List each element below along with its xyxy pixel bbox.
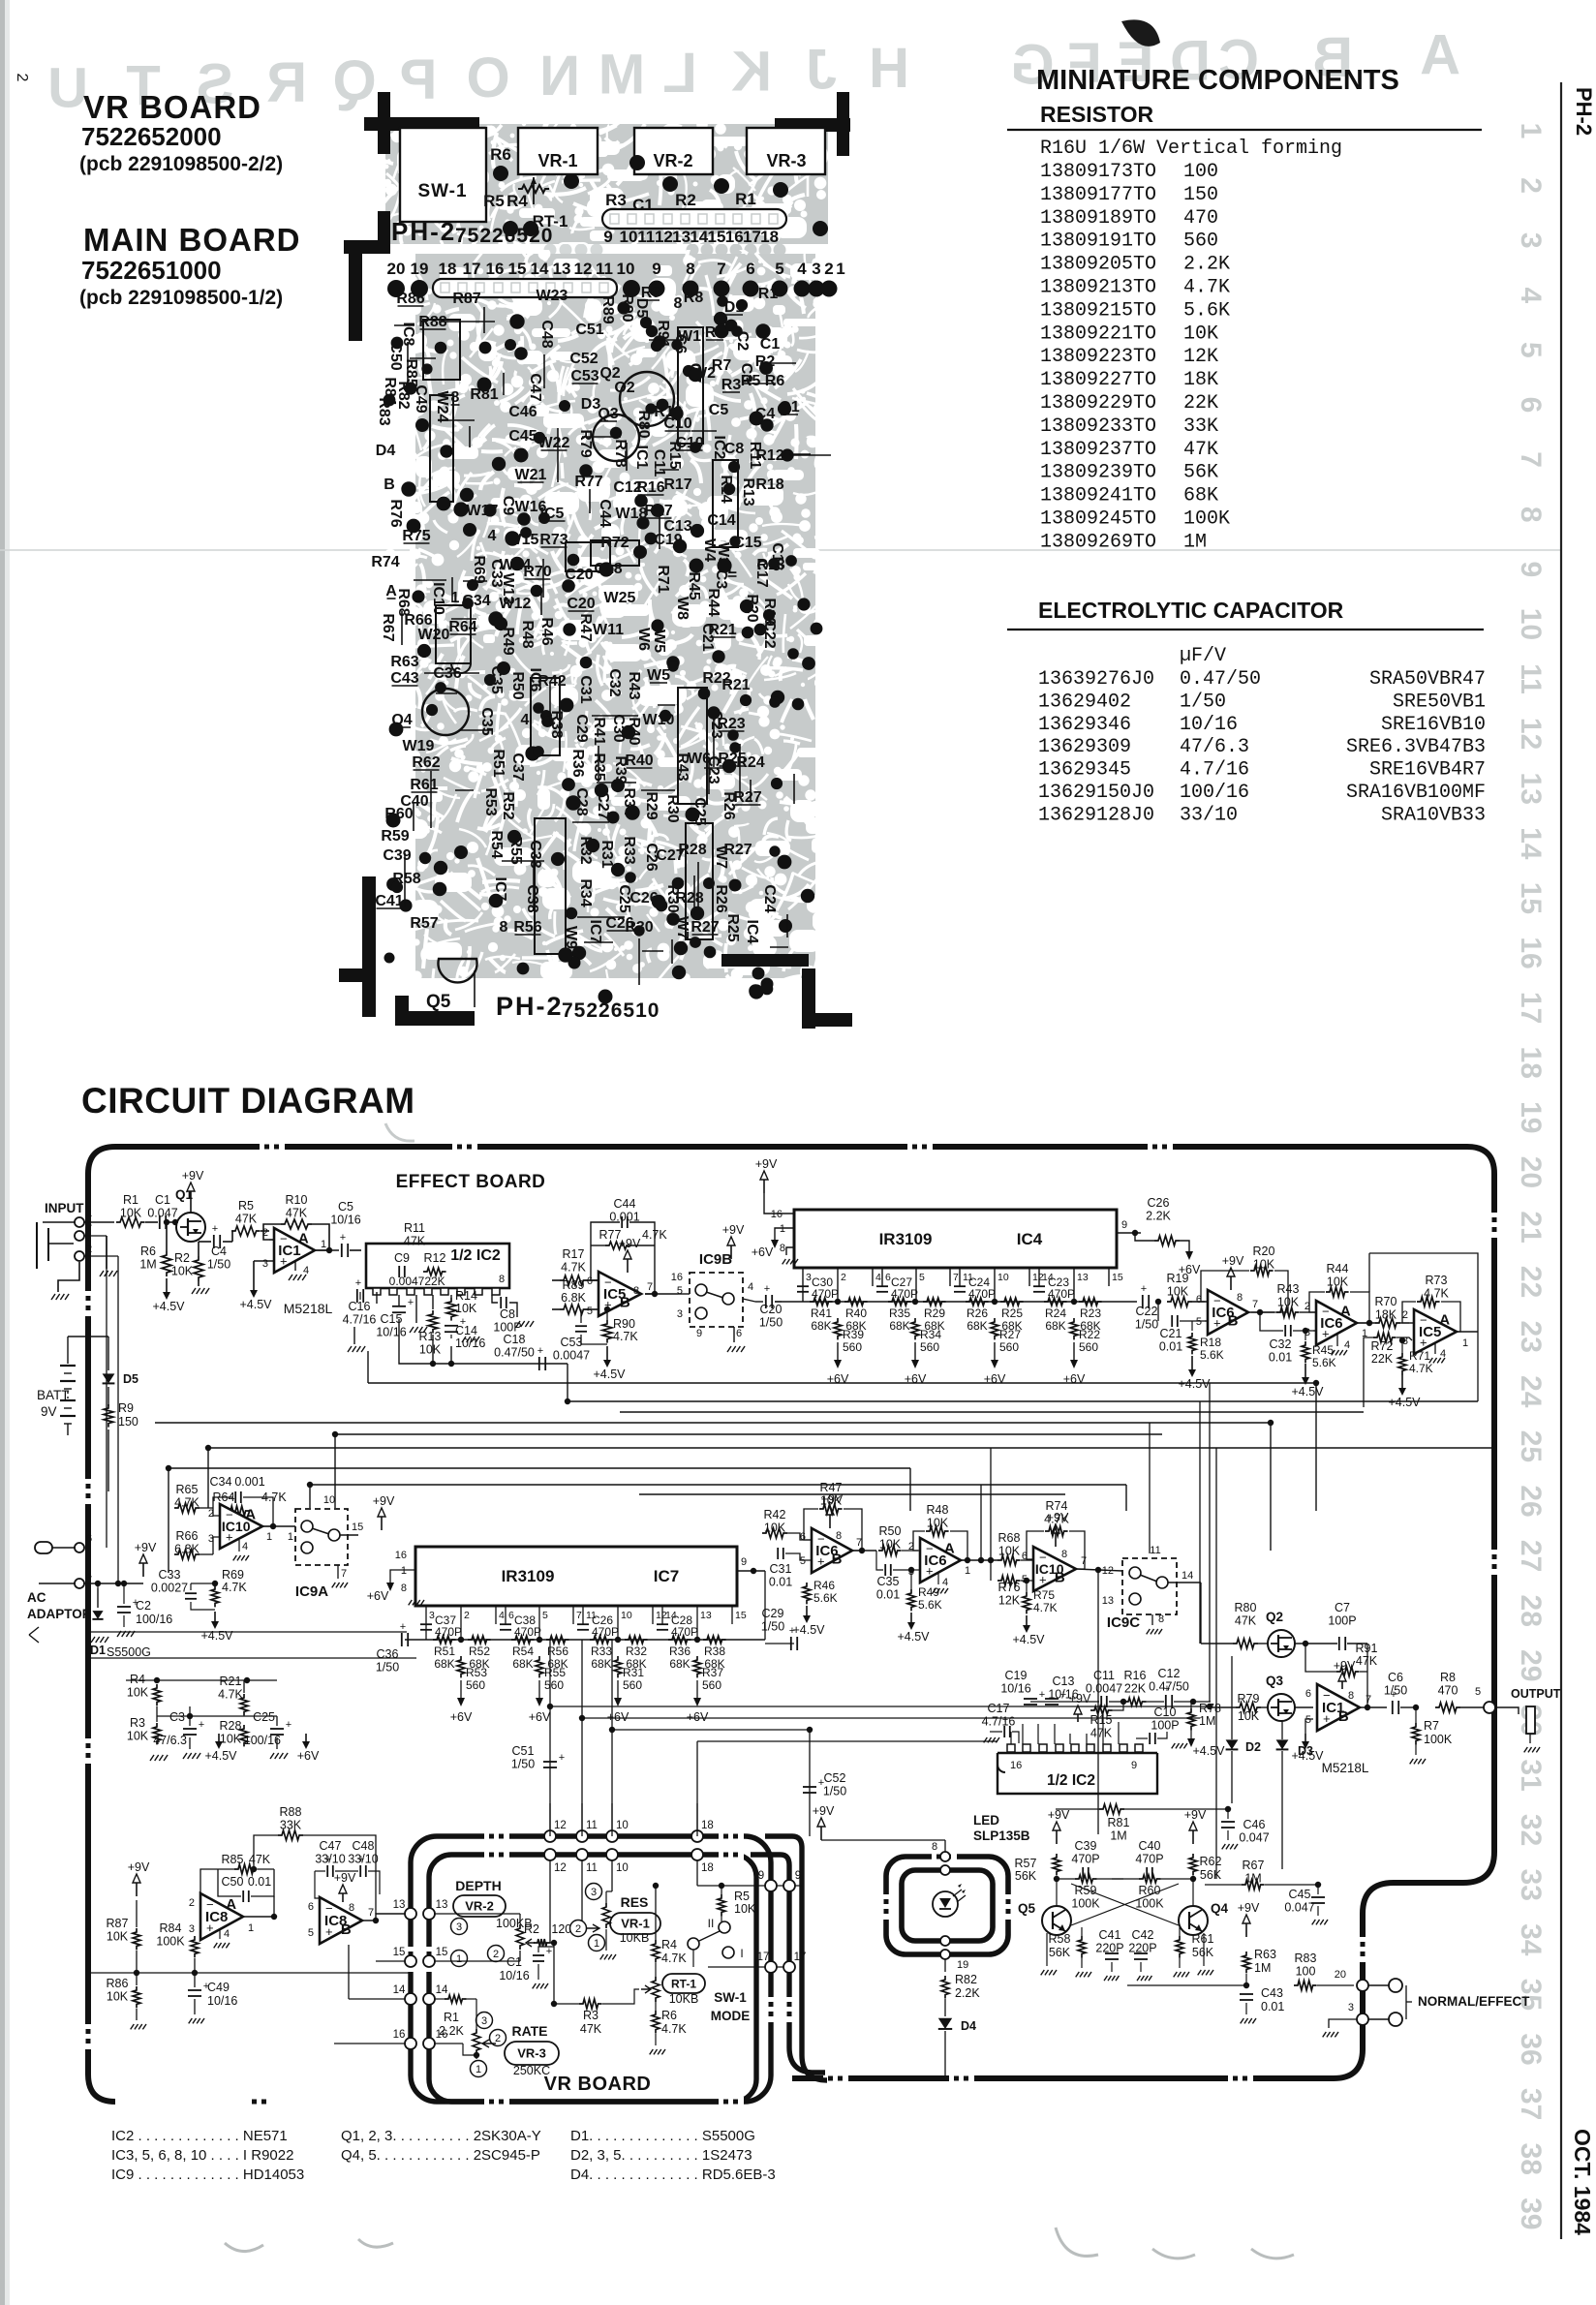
svg-text:11: 11 (586, 1820, 598, 1831)
svg-text:+: + (764, 1283, 770, 1295)
svg-text:C46: C46 (508, 404, 537, 420)
svg-text:R44: R44 (1327, 1262, 1349, 1275)
svg-text:1: 1 (321, 1239, 326, 1250)
op-amp IC10 B (1033, 1547, 1076, 1591)
svg-text:22K: 22K (424, 1275, 445, 1288)
svg-text:R19: R19 (1167, 1272, 1189, 1285)
svg-text:16: 16 (395, 1550, 407, 1561)
svg-text:38: 38 (1515, 2143, 1547, 2175)
pot box VR-1 (518, 128, 598, 174)
resistor R24 (1044, 1298, 1067, 1306)
svg-text:560: 560 (466, 1678, 485, 1692)
svg-text:9: 9 (741, 1556, 747, 1568)
svg-text:M5218L: M5218L (1322, 1761, 1369, 1775)
svg-text:4: 4 (1344, 1339, 1350, 1351)
svg-text:IC9 . . . . . . . . . . . . .: IC9 . . . . . . . . . . . . . HD14053 (111, 2167, 304, 2183)
svg-text:100P: 100P (1328, 1614, 1356, 1628)
wire to R83 (1245, 1974, 1247, 1985)
svg-text:47K: 47K (1235, 1614, 1257, 1628)
svg-text:IC7: IC7 (654, 1567, 679, 1585)
svg-text:D4. . . . . . . . . . . . . .: D4. . . . . . . . . . . . . . RD5.6EB-3 (570, 2167, 776, 2183)
svg-text:PH-2: PH-2 (1572, 87, 1596, 136)
svg-text:C6: C6 (1388, 1671, 1403, 1684)
svg-text:15: 15 (708, 228, 726, 246)
svg-text:10K: 10K (1183, 323, 1218, 345)
wires above IC2 pins (1022, 1724, 1024, 1744)
svg-text:1/50: 1/50 (1135, 1318, 1158, 1332)
svg-text:12K: 12K (998, 1594, 1021, 1608)
svg-text:+6V: +6V (905, 1372, 927, 1386)
effect board border (88, 1147, 1494, 2102)
svg-text:+4.5V: +4.5V (1178, 1377, 1211, 1391)
svg-text:+9V: +9V (1069, 1692, 1091, 1706)
svg-text:4.7K: 4.7K (561, 1261, 586, 1275)
svg-text:2: 2 (575, 1923, 581, 1935)
svg-text:C11: C11 (1093, 1669, 1115, 1682)
svg-text:+4.5V: +4.5V (239, 1298, 272, 1311)
svg-text:10KB: 10KB (620, 1931, 650, 1945)
svg-text:10K: 10K (107, 1990, 129, 2004)
svg-text:C42: C42 (1132, 1928, 1154, 1942)
pot RES VR-1 (586, 1884, 602, 1900)
svg-text:C41: C41 (1099, 1928, 1121, 1942)
LED pin 19 (940, 1936, 950, 1946)
svg-text:R50: R50 (879, 1524, 902, 1538)
svg-text:K: K (731, 40, 772, 103)
svg-text:R84: R84 (160, 1921, 182, 1935)
capacitor C22 (1142, 1295, 1144, 1308)
svg-text:31: 31 (1515, 1759, 1547, 1791)
cross coupling wires (1071, 1889, 1160, 1921)
resistor R55 (536, 1656, 543, 1677)
svg-text:D4: D4 (376, 443, 396, 459)
svg-text:R26: R26 (713, 884, 729, 912)
svg-text:W19: W19 (403, 738, 435, 754)
svg-text:7: 7 (953, 1272, 959, 1283)
svg-text:+6V: +6V (607, 1710, 629, 1724)
svg-text:15: 15 (1515, 882, 1547, 914)
svg-text:+9V: +9V (722, 1223, 745, 1237)
IC6A mid out (961, 1559, 997, 1561)
svg-text:IC9B: IC9B (699, 1251, 732, 1268)
resistor R36 (668, 1636, 691, 1644)
VR board pin header (602, 209, 786, 229)
svg-text:R49: R49 (500, 627, 516, 655)
svg-text:8: 8 (1158, 1613, 1164, 1625)
IC box 1/2 IC2 bottom (1007, 1744, 1015, 1752)
+9V AC rail (84, 1583, 143, 1584)
svg-text:C52: C52 (824, 1771, 846, 1785)
svg-text:16: 16 (1010, 1760, 1022, 1771)
resistor R22 (1070, 1318, 1078, 1339)
svg-text:OCT. 1984: OCT. 1984 (1570, 2129, 1595, 2235)
svg-text:4.7K: 4.7K (1044, 1513, 1069, 1526)
svg-text:INPUT: INPUT (45, 1201, 84, 1215)
svg-text:R12: R12 (755, 447, 783, 464)
svg-text:1M: 1M (1199, 1714, 1215, 1728)
svg-text:VR BOARD: VR BOARD (544, 2074, 652, 2095)
svg-text:+4.5V: +4.5V (593, 1368, 626, 1381)
svg-text:W5: W5 (647, 667, 670, 684)
svg-text:+: + (340, 1232, 346, 1244)
svg-text:SRA10VB33: SRA10VB33 (1381, 804, 1486, 826)
svg-text:R61: R61 (1192, 1932, 1214, 1946)
svg-text:3: 3 (1348, 2002, 1354, 2013)
wires to VR pins (376, 1960, 411, 1962)
svg-text:10/16: 10/16 (1000, 1682, 1030, 1696)
svg-text:13: 13 (1102, 1595, 1114, 1607)
capacitor C30 (797, 1285, 809, 1287)
spare pads row (687, 244, 699, 257)
registration mark top-right (837, 92, 849, 156)
svg-text:100: 100 (1296, 1965, 1316, 1979)
svg-text:19: 19 (411, 260, 429, 278)
svg-text:14: 14 (1515, 827, 1547, 860)
wire IC6B out (1248, 1311, 1274, 1313)
resistor R27 (991, 1318, 998, 1339)
svg-text:8: 8 (349, 1902, 354, 1914)
svg-text:75226510: 75226510 (562, 999, 660, 1022)
svg-text:15: 15 (508, 260, 527, 278)
svg-text:8: 8 (1348, 1690, 1354, 1702)
svg-text:R6: R6 (661, 2009, 677, 2022)
svg-text:15: 15 (1112, 1272, 1123, 1283)
svg-text:R36: R36 (669, 1644, 691, 1658)
Q4 emitter gnd (1203, 1933, 1205, 1966)
svg-text:R12: R12 (424, 1251, 446, 1265)
svg-text:IC4: IC4 (1017, 1230, 1043, 1248)
resistor R35 (888, 1298, 911, 1306)
svg-text:R72: R72 (1371, 1339, 1394, 1353)
resistor R71 (1398, 1353, 1406, 1374)
svg-text:2.2K: 2.2K (955, 1986, 980, 2000)
capacitor C28 (657, 1623, 668, 1625)
svg-text:10KB: 10KB (669, 1992, 699, 2006)
fold line (0, 549, 1561, 551)
svg-text:14: 14 (393, 1984, 406, 1996)
+4.5V under R18 (1191, 1356, 1193, 1369)
svg-text:R18: R18 (1200, 1336, 1221, 1349)
svg-text:16: 16 (771, 1209, 783, 1220)
+9V at IC8B (342, 1893, 344, 1902)
svg-text:68K: 68K (591, 1657, 611, 1671)
svg-text:R79: R79 (577, 429, 594, 457)
svg-text:+: + (358, 1854, 364, 1865)
svg-text:C47: C47 (527, 373, 543, 401)
svg-text:C44: C44 (597, 499, 613, 527)
svg-text:+: + (1002, 1714, 1008, 1726)
svg-text:IC9C: IC9C (1107, 1614, 1140, 1631)
+4.5V under R69 (214, 1612, 216, 1621)
scan edge shading (0, 0, 5, 2305)
AC input node (29, 1627, 39, 1643)
svg-text:13629345: 13629345 (1038, 759, 1131, 782)
svg-text:SRE16VB4R7: SRE16VB4R7 (1369, 759, 1486, 782)
svg-text:12: 12 (655, 228, 673, 246)
svg-text:+9V: +9V (1184, 1808, 1207, 1822)
svg-text:7: 7 (1515, 451, 1547, 468)
svg-text:R51: R51 (490, 749, 506, 777)
svg-text:3: 3 (456, 1921, 462, 1933)
svg-text:18: 18 (701, 1820, 714, 1831)
svg-text:68K: 68K (1183, 485, 1218, 507)
+4.5V under R90 (606, 1346, 608, 1360)
svg-text:R56: R56 (513, 919, 541, 936)
svg-text:R74: R74 (1046, 1499, 1068, 1513)
svg-text:R71: R71 (655, 565, 671, 593)
svg-text:56K: 56K (1015, 1869, 1037, 1883)
svg-text:R47: R47 (577, 613, 594, 641)
svg-text:13809229TO: 13809229TO (1040, 392, 1156, 415)
svg-text:P: P (400, 48, 438, 111)
svg-text:47K: 47K (286, 1207, 308, 1220)
+4.5V mid (218, 1734, 220, 1741)
svg-text:13809239TO: 13809239TO (1040, 462, 1156, 484)
diode D5 (107, 1337, 109, 1370)
svg-text:R24: R24 (1045, 1306, 1066, 1320)
svg-text:C17: C17 (988, 1702, 1010, 1715)
switch SW-1 outline (400, 128, 486, 222)
svg-text:560: 560 (544, 1678, 564, 1692)
svg-text:D5: D5 (123, 1372, 138, 1386)
svg-text:U: U (47, 56, 88, 119)
wire to lower bus (567, 1364, 568, 1401)
svg-text:19: 19 (957, 1959, 968, 1971)
svg-text:9V: 9V (41, 1404, 57, 1419)
svg-text:5: 5 (542, 1610, 548, 1621)
main board component outlines (423, 320, 460, 380)
svg-text:10/16: 10/16 (455, 1337, 485, 1350)
svg-text:5: 5 (775, 260, 783, 278)
svg-text:21: 21 (1515, 1211, 1547, 1243)
svg-text:4: 4 (499, 1610, 505, 1621)
VR pin wires left (405, 1908, 416, 1920)
svg-text:+4.5V: +4.5V (204, 1749, 237, 1763)
svg-text:8: 8 (1237, 1292, 1243, 1304)
svg-text:W21: W21 (515, 467, 547, 483)
svg-text:68K: 68K (1045, 1319, 1065, 1333)
svg-text:+: + (1060, 1689, 1066, 1701)
svg-text:150: 150 (118, 1415, 138, 1429)
right margin rule (1560, 82, 1562, 2239)
svg-text:100/16: 100/16 (1180, 782, 1249, 804)
svg-text:1/2 IC2: 1/2 IC2 (1047, 1772, 1095, 1789)
svg-text:1: 1 (456, 1953, 462, 1965)
svg-text:29: 29 (1515, 1649, 1547, 1681)
svg-text:14: 14 (690, 228, 708, 246)
svg-text:470: 470 (1183, 207, 1218, 230)
svg-text:12: 12 (554, 1862, 567, 1874)
svg-text:R42: R42 (764, 1508, 786, 1521)
svg-text:9: 9 (603, 228, 612, 246)
svg-text:5.6K: 5.6K (813, 1591, 838, 1605)
svg-text:R8: R8 (684, 290, 704, 306)
svg-text:VR-1: VR-1 (537, 151, 577, 170)
capacitor C24 (954, 1285, 966, 1287)
svg-text:C34: C34 (210, 1475, 232, 1489)
svg-text:12: 12 (574, 260, 593, 278)
registration mark bottom-right (802, 968, 815, 1029)
resistor R75 (1023, 1592, 1030, 1613)
resistor R46b (803, 1583, 811, 1604)
svg-text:R43: R43 (626, 671, 642, 699)
svg-text:4.7K: 4.7K (1033, 1601, 1058, 1614)
resistor R23 (1079, 1298, 1102, 1306)
resistor R40 (844, 1298, 868, 1306)
svg-text:3: 3 (677, 1308, 683, 1320)
svg-text:C47: C47 (320, 1839, 342, 1853)
svg-text:SRE50VB1: SRE50VB1 (1393, 691, 1486, 713)
svg-text:R3: R3 (605, 191, 627, 209)
svg-text:R4: R4 (506, 192, 528, 210)
svg-text:+: + (408, 1297, 414, 1308)
svg-text:7: 7 (647, 1281, 653, 1293)
svg-text:7: 7 (1366, 1694, 1371, 1706)
svg-text:1/50: 1/50 (823, 1785, 846, 1798)
svg-text:+: + (1141, 1283, 1147, 1295)
feedback rect wires right (1369, 1253, 1478, 1401)
main board trace wires (503, 373, 505, 395)
svg-text:R74: R74 (371, 554, 399, 570)
svg-text:8: 8 (500, 919, 508, 936)
IC5A out wire (1457, 1331, 1478, 1333)
svg-text:13809177TO: 13809177TO (1040, 184, 1156, 206)
op-amp IC5 B (598, 1272, 641, 1316)
svg-text:+: + (400, 1621, 406, 1633)
svg-text:13629128J0: 13629128J0 (1038, 804, 1154, 826)
svg-text:0.0047: 0.0047 (553, 1349, 590, 1363)
svg-text:R5: R5 (238, 1199, 254, 1213)
svg-text:10K: 10K (171, 1265, 194, 1278)
svg-text:68K: 68K (434, 1657, 454, 1671)
svg-text:L: L (662, 42, 696, 105)
svg-text:560: 560 (999, 1340, 1019, 1354)
svg-text:R62: R62 (1200, 1855, 1222, 1868)
svg-text:11: 11 (1515, 663, 1547, 694)
svg-text:W5: W5 (651, 630, 667, 653)
svg-text:SRA16VB100MF: SRA16VB100MF (1346, 782, 1486, 804)
svg-text:13: 13 (672, 228, 691, 246)
svg-text:13809213TO: 13809213TO (1040, 277, 1156, 299)
svg-text:13: 13 (436, 1899, 448, 1911)
svg-text:R3: R3 (583, 2009, 598, 2022)
svg-text:250KC: 250KC (513, 2064, 550, 2077)
svg-text:100: 100 (1183, 161, 1218, 183)
svg-text:18: 18 (701, 1862, 714, 1874)
svg-text:13629346: 13629346 (1038, 714, 1131, 736)
svg-text:1/50: 1/50 (511, 1758, 535, 1771)
svg-text:VR-1: VR-1 (621, 1917, 650, 1931)
svg-text:R3: R3 (721, 377, 742, 393)
svg-text:68K: 68K (669, 1657, 690, 1671)
svg-text:R83: R83 (1295, 1952, 1317, 1965)
svg-text:R40: R40 (845, 1306, 867, 1320)
svg-text:R29: R29 (643, 791, 660, 819)
IC9A out wire (340, 1534, 358, 1536)
svg-text:R17: R17 (663, 476, 691, 493)
svg-text:+4.5V: +4.5V (152, 1300, 185, 1313)
capacitor C49 (188, 1989, 201, 1991)
svg-text:7: 7 (717, 260, 725, 278)
svg-text:R21: R21 (708, 622, 736, 638)
svg-text:15: 15 (352, 1521, 363, 1533)
IC9C gnd (1151, 1614, 1153, 1625)
svg-text:3: 3 (591, 1887, 597, 1898)
svg-text:II: II (708, 1917, 715, 1930)
svg-text:W8: W8 (674, 597, 691, 620)
svg-text:1: 1 (1515, 123, 1547, 139)
svg-text:C46: C46 (1243, 1818, 1266, 1831)
svg-text:9: 9 (758, 1870, 764, 1882)
svg-text:R69: R69 (222, 1568, 244, 1582)
svg-text:0.47/50: 0.47/50 (494, 1346, 535, 1360)
svg-text:R25: R25 (1001, 1306, 1023, 1320)
svg-text:17: 17 (463, 260, 481, 278)
svg-text:C5: C5 (338, 1200, 353, 1214)
svg-text:C9: C9 (394, 1251, 410, 1265)
op-amp IC6 B mid (812, 1528, 852, 1573)
capacitor C51 (543, 1761, 557, 1763)
svg-text:13809241TO: 13809241TO (1040, 485, 1156, 507)
svg-text:RATE: RATE (511, 2023, 547, 2039)
svg-text:6: 6 (736, 1328, 742, 1339)
ground under C15 area (410, 1327, 414, 1333)
svg-text:10K: 10K (1327, 1275, 1349, 1289)
svg-text:12: 12 (554, 1820, 567, 1831)
svg-text:25: 25 (1515, 1430, 1547, 1462)
svg-text:1: 1 (288, 1531, 293, 1543)
svg-text:+: + (546, 1946, 552, 1957)
+4.5V at IC1B pin5 (1305, 1719, 1313, 1734)
svg-text:B: B (832, 1552, 843, 1568)
svg-text:4: 4 (521, 712, 530, 728)
svg-text:0.047: 0.047 (1239, 1831, 1269, 1845)
IC box IR3109 IC4 (794, 1210, 1117, 1268)
svg-text:+9V: +9V (128, 1860, 150, 1874)
svg-text:0.0047: 0.0047 (1086, 1682, 1122, 1696)
svg-text:3: 3 (1304, 1327, 1310, 1338)
svg-text:1: 1 (836, 260, 844, 278)
svg-text:C20: C20 (760, 1303, 783, 1316)
svg-text:+9V: +9V (334, 1871, 356, 1885)
svg-text:A: A (298, 1231, 309, 1247)
svg-text:C25: C25 (253, 1710, 275, 1724)
svg-text:IC4: IC4 (744, 920, 760, 944)
resistor R32 (625, 1636, 648, 1644)
svg-text:100K: 100K (1424, 1733, 1453, 1746)
svg-text:R73: R73 (1426, 1274, 1448, 1287)
svg-text:470: 470 (1438, 1684, 1458, 1698)
svg-text:C22: C22 (1136, 1305, 1158, 1318)
svg-text:20: 20 (387, 260, 406, 278)
svg-text:5.6K: 5.6K (1312, 1356, 1336, 1369)
svg-text:C14: C14 (707, 512, 735, 529)
svg-text:9: 9 (795, 1870, 801, 1882)
svg-text:R70: R70 (523, 564, 551, 580)
LED box inner (902, 1870, 993, 1941)
wire mesh mid (90, 1631, 407, 1633)
IC4 ladder pins (802, 1268, 804, 1302)
svg-text:SRE16VB10: SRE16VB10 (1381, 714, 1486, 736)
svg-text:15: 15 (393, 1947, 406, 1958)
svg-text:+9V: +9V (1334, 1659, 1356, 1673)
svg-text:R53: R53 (466, 1666, 487, 1679)
svg-text:470P: 470P (1135, 1853, 1163, 1866)
svg-text:R41: R41 (591, 717, 607, 745)
wire input to R1 (84, 1221, 114, 1223)
svg-text:4.7K: 4.7K (1409, 1362, 1433, 1375)
svg-text:R73: R73 (539, 532, 568, 548)
